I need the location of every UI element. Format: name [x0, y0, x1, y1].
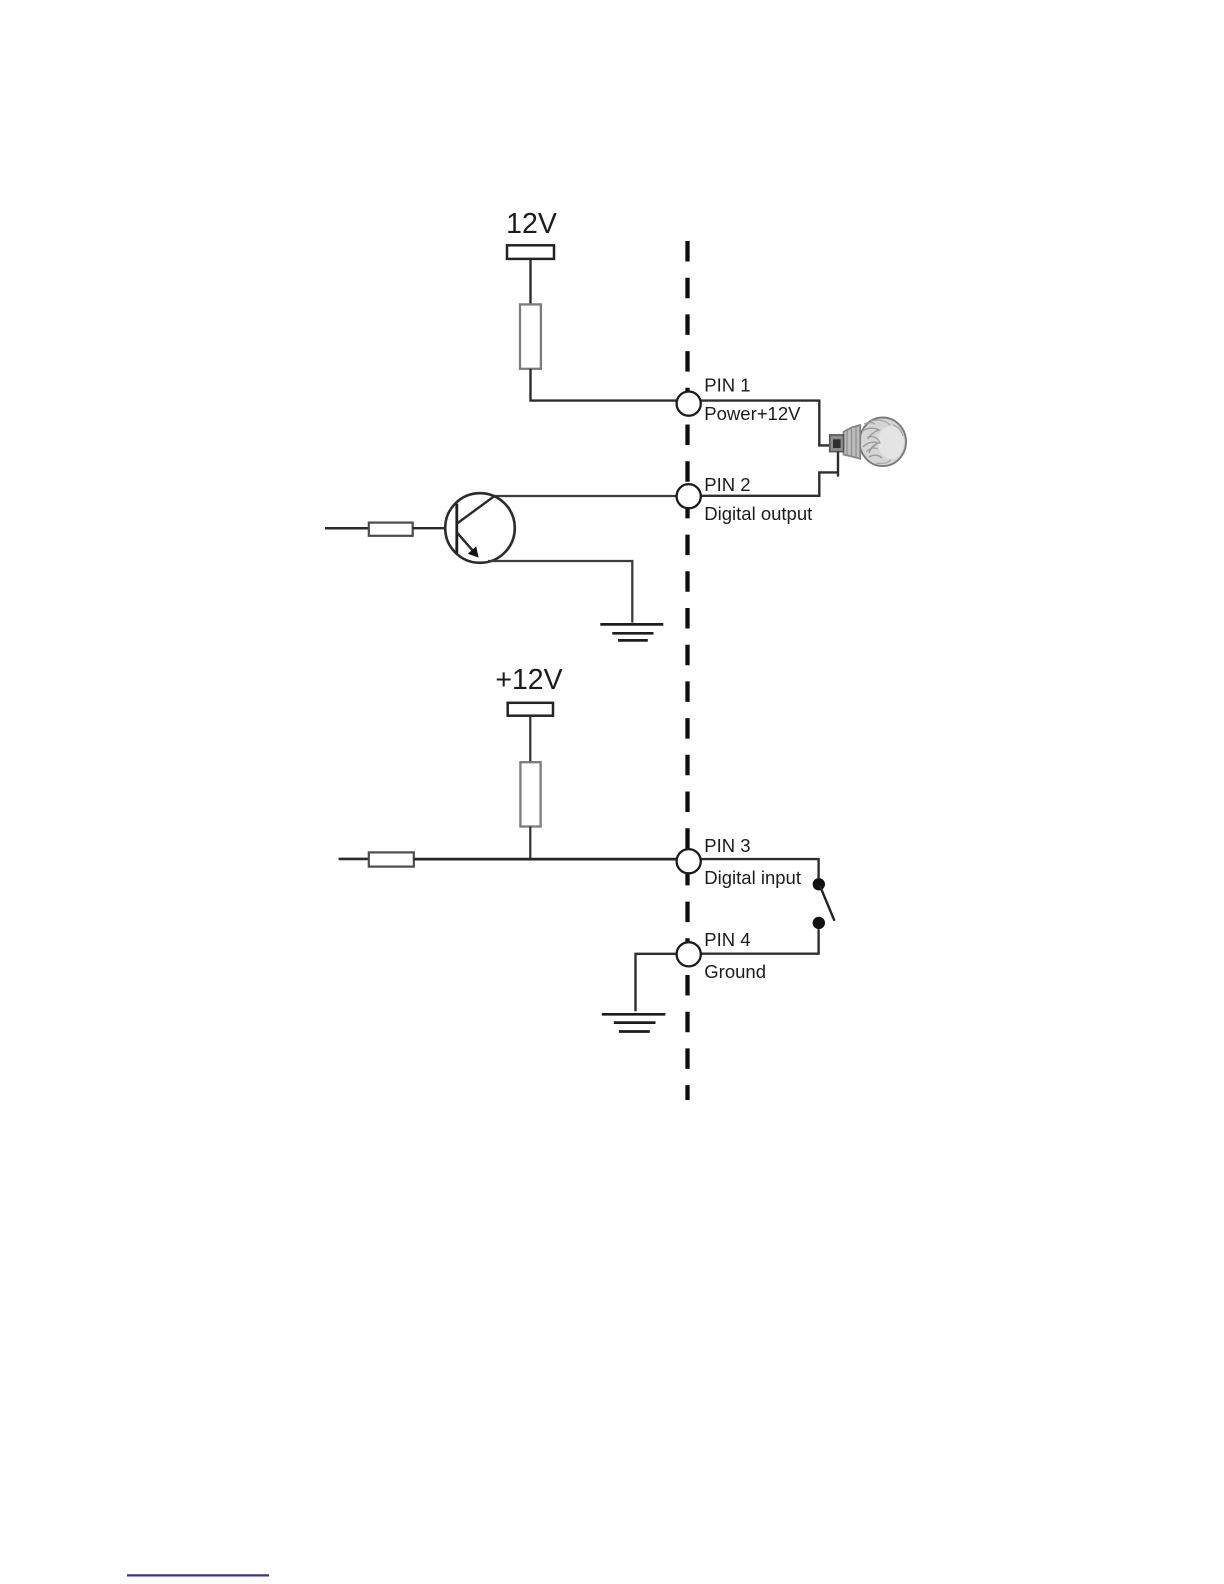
wire input stub	[339, 858, 369, 861]
lamp DS1	[830, 418, 906, 467]
resistor R4	[520, 762, 540, 826]
svg-text:12V: 12V	[506, 208, 557, 240]
switch S1	[813, 878, 835, 929]
resistor R3	[369, 852, 414, 866]
svg-text:Power+12V: Power+12V	[704, 403, 801, 424]
device boundary dashed line	[685, 241, 689, 1100]
wire emitter to ground	[488, 561, 632, 623]
wire R4 to junction	[529, 827, 531, 860]
pin PIN 2	[677, 484, 701, 508]
wire PIN 3 to switch	[701, 859, 819, 878]
transistor Q1	[445, 493, 515, 563]
resistor R2	[369, 523, 413, 536]
svg-text:PIN 3: PIN 3	[704, 835, 750, 856]
power supply bar +12V	[508, 703, 553, 716]
wire R2 to transistor base	[413, 527, 447, 529]
wire PIN 4 to ground	[636, 954, 677, 1011]
wire base stub	[325, 527, 369, 530]
wire switch to PIN 4	[701, 929, 819, 954]
svg-text:Digital output: Digital output	[704, 503, 812, 524]
pin PIN 3	[677, 849, 701, 873]
svg-text:+12V: +12V	[495, 664, 562, 696]
pin PIN 4	[677, 942, 701, 966]
wire bar to R1	[529, 259, 531, 305]
wire R3 to PIN 3	[414, 858, 677, 861]
wire lamp socket down stub	[837, 452, 839, 477]
footer rule	[127, 1574, 269, 1576]
wire PIN 2 to lamp	[701, 472, 838, 495]
svg-text:PIN 1: PIN 1	[704, 374, 750, 395]
wire R1 to PIN 1	[531, 369, 677, 401]
power supply bar 12V	[507, 245, 554, 259]
ground (emitter)	[600, 624, 663, 640]
wire PIN 1 to lamp socket	[701, 401, 830, 446]
wire bar to R4	[529, 716, 531, 763]
pin PIN 1	[677, 392, 701, 416]
svg-text:PIN 4: PIN 4	[704, 929, 750, 950]
ground (PIN 4)	[602, 1014, 666, 1031]
svg-text:PIN 2: PIN 2	[704, 474, 750, 495]
svg-text:Digital input: Digital input	[704, 867, 801, 888]
resistor R1	[520, 304, 541, 368]
wire transistor collector to PIN 2	[492, 495, 677, 497]
svg-text:Ground: Ground	[704, 961, 766, 982]
